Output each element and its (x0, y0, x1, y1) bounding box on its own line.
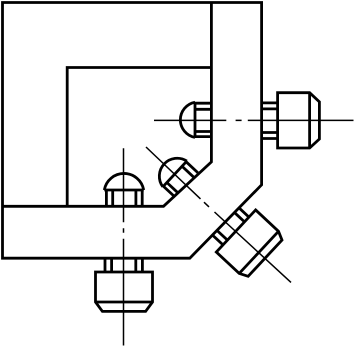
dome screw D3 base line (163, 161, 187, 187)
screw S3 head chamfer line (239, 231, 278, 273)
screw S2 (bottom vertical screw) thread lines (105, 258, 142, 272)
screw S3 thread lines (213, 208, 249, 245)
center line A (horizontal axis of S1/D1) (154, 119, 354, 121)
screw S3 (45deg lower-right screw) (206, 200, 285, 279)
screw S3 head outline (216, 210, 284, 279)
body outer outline (3, 3, 262, 259)
dome screw D1 dome arc (180, 102, 195, 137)
screw S2 head chamfer line (96, 301, 153, 304)
center line C (45deg axis of S3/D3) (146, 147, 291, 282)
dome screw D3 (middle, on upper 45deg face) (152, 151, 198, 198)
dome screw D2 base line (104, 189, 143, 192)
dome screw D1 (left, on column face) band rungs (195, 103, 212, 136)
screw S1 head outline (278, 93, 320, 148)
bar top edge / upper 45deg face / column left face (3, 3, 212, 207)
dome screw D2 (bottom, on bar top) band rungs (106, 190, 142, 206)
screw S1 head chamfer line (308, 93, 311, 148)
screw S1 (right horizontal screw) thread lines (262, 103, 278, 139)
dome screw D3 dome arc (152, 151, 187, 187)
dome screw D3 band rungs (163, 162, 197, 197)
dome screw D1 base line (194, 102, 197, 137)
dome screw D2 dome arc (104, 173, 143, 190)
screw S2 head outline (96, 272, 153, 311)
inner step edges (recess corner) (67, 68, 212, 207)
center line B (vertical axis of S2/D2) (123, 148, 125, 345)
